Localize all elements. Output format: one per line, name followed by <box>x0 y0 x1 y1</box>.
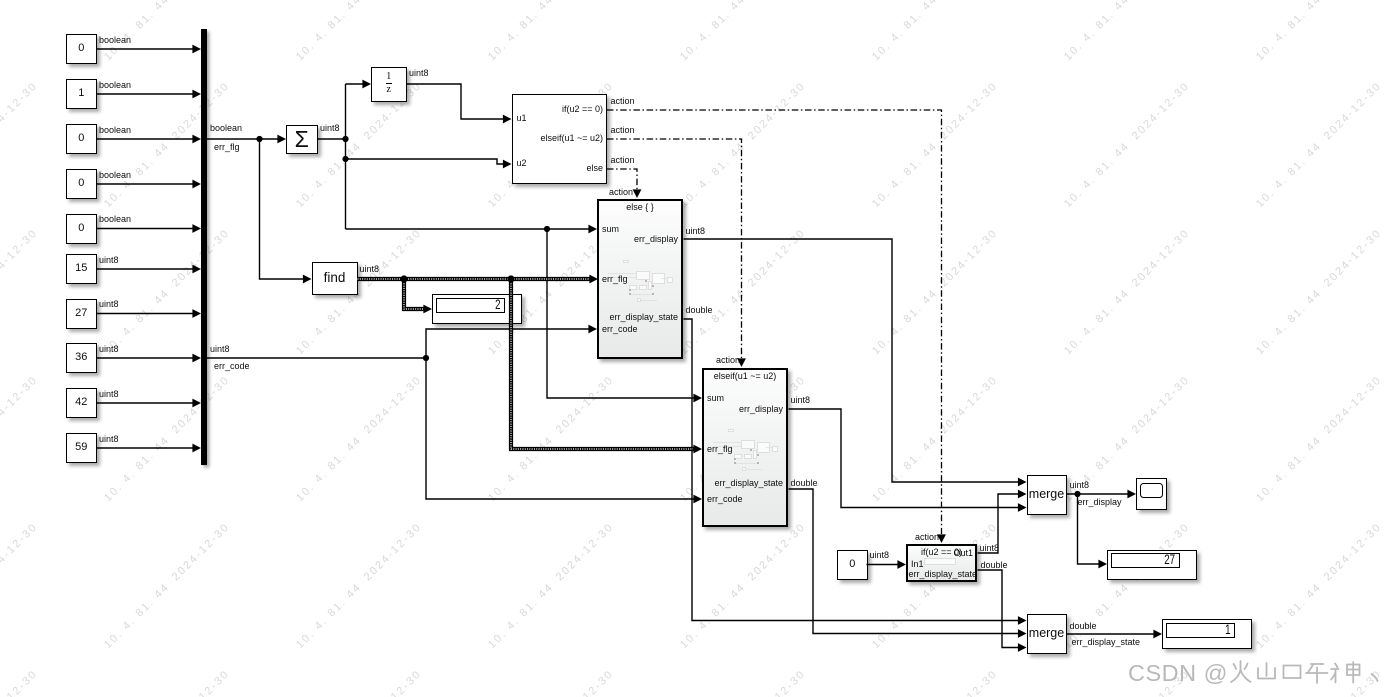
wire: constant 0 to mux <box>97 180 202 189</box>
junction on find output (branch to elseif) <box>507 275 514 282</box>
wire: constant 0 to mux <box>97 45 202 54</box>
label double on elseif err_display_state output <box>791 479 818 489</box>
wire: else err_display to merge1 input 1 <box>684 239 1027 486</box>
action line: else output to else subsystem <box>607 169 641 198</box>
wire: mux err_flg output to sum block <box>207 135 287 144</box>
label boolean on mux output <box>210 124 242 134</box>
wire (bold dotted): branch down to display 2 <box>404 279 432 313</box>
wire (bold dotted): find output to else subsystem err_flg port <box>358 275 599 284</box>
label boolean on input wire 2 <box>99 81 131 91</box>
wire: sum value to else subsystem sum port <box>346 225 598 234</box>
label uint8 on else err_display output <box>686 227 706 237</box>
label uint8 on input wire 6 <box>99 256 119 266</box>
wire: constant 0 to mux <box>97 224 202 233</box>
wire: constant 42 to mux <box>97 399 202 408</box>
constant block 0 (input 3) <box>66 124 97 154</box>
label err_display_state on merge2 output <box>1072 638 1141 648</box>
wire: err_code up to else subsystem err_code port <box>426 325 597 358</box>
junction at sum output <box>342 136 348 142</box>
find block <box>312 262 358 295</box>
label action on elseif output <box>611 126 635 136</box>
sum block <box>286 125 318 155</box>
label uint8 on constant 0 output <box>870 551 890 561</box>
wire: mux err_code output trunk <box>207 357 427 359</box>
label uint8 on input wire 8 <box>99 345 119 355</box>
label uint8 on unit delay output <box>409 69 429 79</box>
merge block 2 <box>1027 614 1067 654</box>
mux bar <box>201 29 207 465</box>
wire: err_display_state of if-action subsystem to merge2 input 3 <box>978 570 1027 652</box>
wire (bold dotted): branch down to elseif subsystem err_flg port <box>511 279 702 453</box>
label double on else err_display_state output <box>686 306 713 316</box>
merge block 1 <box>1027 475 1067 515</box>
label uint8 on input wire 9 <box>99 390 119 400</box>
wire: branch to if block u2 input <box>346 159 512 168</box>
wire: constant 1 to mux <box>97 90 202 99</box>
junction on merge1 output <box>1074 491 1080 497</box>
label err_flg on mux output <box>214 143 240 153</box>
label uint8 on elseif err_display output <box>791 396 811 406</box>
label action on if output <box>611 97 635 107</box>
wire: constant 0 to In1 of if-action subsystem <box>867 560 907 569</box>
action line: if(u2==0) output to if-action subsystem <box>607 110 946 543</box>
label uint8 on mux err_code output <box>210 345 230 355</box>
constant block 0 (input 5) <box>66 214 97 244</box>
label action at else subsystem arrow <box>609 188 633 198</box>
label boolean on input wire 1 <box>99 36 131 46</box>
wire: merge1 output to scope <box>1067 490 1137 499</box>
junction on err_flg wire (branch to find) <box>256 136 262 142</box>
else action subsystem <box>597 199 683 359</box>
label err_display on merge1 output <box>1078 498 1122 508</box>
label action at elseif subsystem arrow <box>716 356 740 366</box>
label boolean on input wire 4 <box>99 171 131 181</box>
wire: constant 59 to mux <box>97 444 202 453</box>
junction for u2 branch <box>342 156 348 162</box>
wire: constant 0 to mux <box>97 135 202 144</box>
wire: unit delay output to if block u1 input <box>407 84 512 123</box>
display block value 27 <box>1107 550 1197 580</box>
constant block 42 (input 9) <box>66 388 97 418</box>
unit delay block 1/z <box>371 67 407 102</box>
label action at if-action subsystem arrow <box>915 533 939 543</box>
display block value 1 <box>1162 619 1252 649</box>
junction on err_code wire <box>423 355 429 361</box>
label double on merge2 output <box>1070 622 1097 632</box>
wire: err_flg branch down to find block <box>260 139 312 283</box>
label uint8 on Out1 output <box>980 544 1000 554</box>
wire: else err_display_state to merge2 input 1 <box>684 319 1027 625</box>
wire: sum branch down to elseif subsystem sum port <box>547 229 702 402</box>
label uint8 on input wire 7 <box>99 300 119 310</box>
if(u2==0) action subsystem <box>906 544 977 582</box>
wire: merge2 output to display 1 <box>1067 630 1163 639</box>
label action on else output <box>611 156 635 166</box>
wire: constant 15 to mux <box>97 265 202 274</box>
wire: merge1 output branch to display 27 <box>1078 494 1108 568</box>
label uint8 on sum output <box>320 124 340 134</box>
constant block 27 (input 7) <box>66 299 97 329</box>
constant block 15 (input 6) <box>66 254 97 284</box>
label uint8 on find output <box>360 265 380 275</box>
scope block <box>1136 478 1167 510</box>
constant block 1 (input 2) <box>66 79 97 109</box>
junction on sum wire <box>544 226 550 232</box>
action line: elseif output to elseif subsystem <box>607 139 746 367</box>
wire: constant 36 to mux <box>97 354 202 363</box>
constant block 36 (input 8) <box>66 343 97 373</box>
wire: err_code down to elseif subsystem err_code port <box>426 358 702 503</box>
CSDN watermark text <box>1128 659 1380 687</box>
display block value 2 <box>432 294 522 324</box>
constant block 0 (for if-action subsystem) <box>837 550 868 580</box>
label uint8 on input wire 10 <box>99 435 119 445</box>
constant block 59 (input 10) <box>66 433 97 463</box>
label err_code on mux output <box>214 362 250 372</box>
wire: branch up to unit delay <box>346 80 372 89</box>
wire: elseif err_display to merge1 input 3 <box>789 409 1027 512</box>
wire: Out1 of if-action subsystem to merge1 input 2 <box>978 490 1027 553</box>
wire: elseif err_display_state to merge2 input 2 <box>789 489 1027 638</box>
wire: constant 27 to mux <box>97 309 202 318</box>
wire: sum output trunk <box>318 84 346 229</box>
label uint8 on merge1 output <box>1070 481 1090 491</box>
label boolean on input wire 3 <box>99 126 131 136</box>
label double on small err_display_state output <box>981 561 1008 571</box>
constant block 0 (input 1) <box>66 34 97 64</box>
constant block 0 (input 4) <box>66 169 97 199</box>
label boolean on input wire 5 <box>99 215 131 225</box>
elseif action subsystem <box>702 368 788 527</box>
if block <box>512 94 608 184</box>
